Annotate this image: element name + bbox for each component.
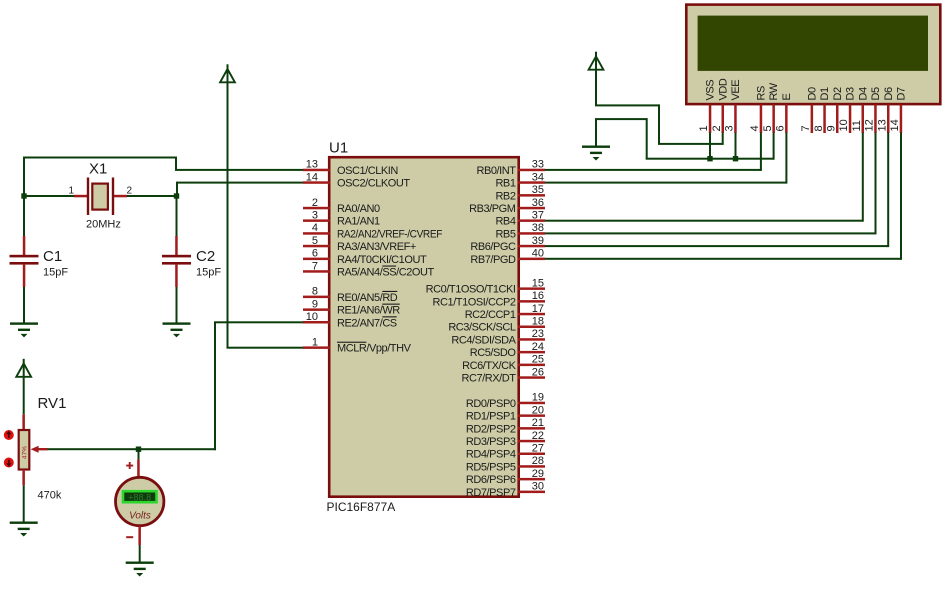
svg-text:13: 13 [876,119,888,131]
RV1 wiper arrow [38,448,48,450]
pin 29 stub (right) [518,478,546,481]
svg-text:14: 14 [889,119,901,131]
svg-text:RA1/AN1: RA1/AN1 [337,216,380,228]
svg-text:RD7/PSP7: RD7/PSP7 [466,487,516,499]
svg-text:RB1: RB1 [495,178,515,190]
svg-text:2: 2 [711,125,723,131]
svg-text:1: 1 [698,125,710,131]
svg-text:RB4: RB4 [495,216,515,228]
svg-text:6: 6 [312,248,318,260]
wire: MCLR pin1 horizontal [227,347,304,349]
svg-text:2: 2 [127,186,133,197]
pin 3 stub (left) [303,219,330,222]
svg-text:VEE: VEE [730,80,742,101]
svg-text:RE2/AN7/CS: RE2/AN7/CS [337,317,397,329]
svg-text:OSC2/CLKOUT: OSC2/CLKOUT [337,178,410,190]
pin 2 stub (left) [303,207,330,210]
svg-text:E: E [781,94,793,101]
LCD pin 5 stub [772,105,775,134]
svg-text:RS: RS [756,86,768,100]
pin 9 stub (left) [303,308,330,311]
svg-text:RE1/AN6/WR: RE1/AN6/WR [337,305,400,317]
svg-text:36: 36 [532,197,544,209]
wire: X1 left net top horizontal [23,157,177,159]
LCD pin 13 stub [887,105,890,134]
potentiometer RV1 [4,376,67,522]
pin 6 stub (left) [303,258,330,261]
IC U1 PIC16F877A body [327,140,519,515]
wire: RB5 to D5 [545,232,876,234]
pin 15 stub (right) [518,287,546,290]
crystal X1 [68,161,132,231]
pin 8 stub (left) [303,296,330,299]
pin 39 stub (right) [518,245,546,248]
svg-text:8: 8 [813,125,825,131]
LCD pin 10 stub [849,105,852,134]
LCD pin 6 stub [785,105,788,134]
svg-text:47%: 47% [22,446,29,459]
svg-text:Volts: Volts [129,511,151,522]
pin 23 stub (right) [518,338,546,341]
power +5V symbol to LCD VDD [589,52,604,70]
svg-text:RD3/PSP3: RD3/PSP3 [466,436,516,448]
svg-text:5: 5 [312,235,318,247]
pin 35 stub (right) [518,194,546,197]
svg-text:19: 19 [532,392,544,404]
svg-text:30: 30 [532,481,544,493]
wire: OSC2 pin14 net [177,182,303,184]
ground under C1 [10,322,38,337]
svg-text:RC3/SCK/SCL: RC3/SCK/SCL [448,322,516,334]
svg-text:RD4/PSP4: RD4/PSP4 [466,449,516,461]
svg-text:D7: D7 [896,87,908,100]
pin 19 stub (right) [518,402,546,405]
voltmeter [116,449,164,562]
pin 14 stub (left) [303,181,330,184]
wire: RB1 to E [545,182,786,184]
pin 40 stub (right) [518,258,546,261]
svg-text:RC4/SDI/SDA: RC4/SDI/SDA [451,334,516,346]
svg-text:D6: D6 [883,87,895,100]
pin 7 stub (left) [303,270,330,273]
svg-text:RB0/INT: RB0/INT [476,165,516,177]
node: wiper/voltmeter junction [136,447,141,452]
wire: VCC down 2 [658,104,660,143]
svg-text:2: 2 [312,197,318,209]
svg-text:20: 20 [532,404,544,416]
pin 38 stub (right) [518,232,546,235]
svg-text:15pF: 15pF [43,267,68,279]
pin 1 stub (left) [303,346,330,349]
LCD pin 14 stub [900,105,903,134]
pin 13 stub (left) [303,169,330,172]
svg-text:3: 3 [724,125,736,131]
node: VSS junction [707,156,712,161]
svg-text:RC0/T1OSO/T1CKI: RC0/T1OSO/T1CKI [426,284,516,296]
ground under voltmeter [126,562,154,577]
svg-text:RC7/RX/DT: RC7/RX/DT [461,373,516,385]
wire: X1 pin1 horizontal [23,195,74,197]
pin 17 stub (right) [518,313,546,316]
svg-text:D5: D5 [870,87,882,100]
svg-text:D0: D0 [806,87,818,100]
wire: riser to RE2/AN7 [214,322,216,450]
svg-text:RB3/PGM: RB3/PGM [469,203,516,215]
LCD pin 9 stub [836,105,839,134]
svg-text:RB6/PGC: RB6/PGC [470,241,516,253]
svg-text:26: 26 [532,366,544,378]
pin 20 stub (right) [518,414,546,417]
wire: junction to riser [139,448,217,450]
wire: VCC right [595,104,659,106]
svg-text:RD2/PSP2: RD2/PSP2 [466,423,516,435]
svg-text:27: 27 [532,443,544,455]
pin 33 stub (right) [518,169,546,172]
wire: X1 right to OSC2 vertical [176,182,178,196]
pin 30 stub (right) [518,491,546,494]
svg-text:15pF: 15pF [196,267,221,279]
pin 28 stub (right) [518,465,546,468]
svg-text:MCLR/Vpp/THV: MCLR/Vpp/THV [337,343,412,355]
svg-text:D2: D2 [832,87,844,100]
wire: ground stem up [595,119,597,145]
pin 24 stub (right) [518,351,546,354]
pin 25 stub (right) [518,364,546,367]
ground LCD ground [582,146,610,161]
wire: RW pin5 drop [773,133,775,160]
pin 36 stub (right) [518,207,546,210]
svg-text:16: 16 [532,290,544,302]
capacitor C2 [162,236,221,287]
svg-text:9: 9 [826,125,838,131]
wire: RB0 to RS [545,169,761,171]
LCD pin 11 stub [862,105,865,134]
wire: VCC down [595,69,597,105]
svg-text:35: 35 [532,184,544,196]
svg-text:23: 23 [532,328,544,340]
ground under RV1 [10,522,38,537]
pin 21 stub (right) [518,427,546,430]
wire: C2 top lead [176,196,178,236]
RV1 adjust buttons [4,430,14,440]
wire: gnd right [595,118,647,120]
LCD pin 7 stub [811,105,814,134]
svg-text:38: 38 [532,222,544,234]
wire: X1 pin2 horizontal [127,195,178,197]
wire: X1 left net vertical [23,157,25,197]
svg-text:C1: C1 [43,248,62,265]
svg-text:10: 10 [306,311,318,323]
svg-text:RB5: RB5 [495,228,515,240]
svg-text:VDD: VDD [717,78,729,100]
svg-text:RD1/PSP1: RD1/PSP1 [466,411,516,423]
wire: VCC to MCLR vertical [227,82,229,348]
svg-text:1: 1 [312,337,318,349]
svg-text:21: 21 [532,417,544,429]
svg-text:RC1/T1OSI/CCP2: RC1/T1OSI/CCP2 [433,296,516,308]
svg-text:17: 17 [532,303,544,315]
LCD pin 4 stub [760,105,763,134]
svg-text:5: 5 [762,125,774,131]
wire: gnd bus to RW [646,158,774,160]
LCD module LM016L body [686,5,940,105]
wire: OSC1 pin13 net [175,169,303,171]
wire: RE2/AN7 pin10 horizontal [214,321,303,323]
pin 16 stub (right) [518,300,546,303]
svg-text:22: 22 [532,430,544,442]
svg-text:RA2/AN2/VREF-/CVREF: RA2/AN2/VREF-/CVREF [337,228,443,240]
svg-text:15: 15 [532,277,544,289]
svg-text:RD6/PSP6: RD6/PSP6 [466,474,516,486]
svg-text:RA4/T0CKI/C1OUT: RA4/T0CKI/C1OUT [337,254,427,266]
LCD pin 1 stub [709,105,712,134]
svg-text:X1: X1 [89,161,107,178]
pin 5 stub (left) [303,245,330,248]
svg-text:33: 33 [532,159,544,171]
svg-text:18: 18 [532,316,544,328]
svg-text:OSC1/CLKIN: OSC1/CLKIN [337,165,398,177]
power +5V symbol to MCLR [220,64,235,82]
svg-text:RB7/PGD: RB7/PGD [470,254,516,266]
node: X1/C1/OSC1 junction [21,193,26,198]
svg-text:37: 37 [532,210,544,222]
svg-text:8: 8 [312,286,318,298]
svg-text:1: 1 [68,186,74,197]
pin 18 stub (right) [518,326,546,329]
pin 4 stub (left) [303,232,330,235]
wire: VCC to VDD [658,143,723,145]
pin 26 stub (right) [518,376,546,379]
svg-text:28: 28 [532,455,544,467]
wire: C1 top lead [23,196,25,236]
svg-text:PIC16F877A: PIC16F877A [327,500,396,514]
svg-text:RA3/AN3/VREF+: RA3/AN3/VREF+ [337,241,416,253]
svg-text:RC5/SDO: RC5/SDO [470,347,517,359]
node: X1/C2/OSC2 junction [174,193,179,198]
svg-text:D3: D3 [845,87,857,100]
capacitor C1 [10,236,69,287]
wire: gnd down [646,118,648,159]
svg-text:VSS: VSS [705,80,717,101]
svg-text:3: 3 [312,210,318,222]
wire: RV1 wiper to junction [47,448,139,450]
svg-text:RE0/AN5/RD: RE0/AN5/RD [337,292,398,304]
svg-text:D4: D4 [857,87,869,100]
pin 22 stub (right) [518,440,546,443]
wire: VEE pin3 drop [735,133,737,159]
wire: VDD pin2 drop [722,133,724,145]
svg-text:RC6/TX/CK: RC6/TX/CK [462,360,517,372]
svg-text:RA0/AN0: RA0/AN0 [337,203,380,215]
pin 10 stub (left) [303,321,330,324]
wire: VSS pin1 drop [709,133,711,159]
svg-text:+88.8: +88.8 [128,493,151,503]
svg-text:40: 40 [532,248,544,260]
LCD pin 2 stub [722,105,725,134]
svg-text:29: 29 [532,468,544,480]
svg-text:RB2: RB2 [495,190,515,202]
svg-text:12: 12 [864,119,876,131]
node: VEE junction [733,156,738,161]
svg-text:4: 4 [749,125,761,131]
svg-text:20MHz: 20MHz [86,219,121,231]
svg-text:RD5/PSP5: RD5/PSP5 [466,461,516,473]
ground under C2 [163,322,191,337]
svg-text:D1: D1 [819,87,831,100]
LCD pin 12 stub [874,105,877,134]
svg-text:34: 34 [532,171,544,183]
wire: RB6 to D6 [545,245,888,247]
pin 37 stub (right) [518,219,546,222]
svg-text:10: 10 [838,119,850,131]
svg-text:7: 7 [800,125,812,131]
svg-text:4: 4 [312,222,318,234]
svg-text:7: 7 [312,260,318,272]
svg-text:13: 13 [306,159,318,171]
svg-text:RD0/PSP0: RD0/PSP0 [466,398,516,410]
svg-text:U1: U1 [329,140,348,157]
wire: jog down to OSC1 row [175,157,177,170]
wire: RB7 to D7 [545,258,901,260]
wire: RB4 to D4 [545,220,863,222]
svg-text:14: 14 [306,171,318,183]
svg-text:RA5/AN4/SS/C2OUT: RA5/AN4/SS/C2OUT [337,267,434,279]
wire: C2 bottom lead to ground [176,287,178,323]
svg-text:11: 11 [851,120,863,131]
wire: C1 bottom lead to ground [23,287,25,323]
svg-text:RW: RW [768,82,780,100]
svg-text:24: 24 [532,341,544,353]
pin 27 stub (right) [518,453,546,456]
pin 34 stub (right) [518,181,546,184]
svg-text:25: 25 [532,354,544,366]
svg-text:6: 6 [775,125,787,131]
svg-text:RV1: RV1 [38,395,67,412]
LCD pin 3 stub [734,105,737,134]
LCD pin 8 stub [823,105,826,134]
svg-text:470k: 470k [38,490,62,502]
power +5V symbol to RV1 [16,359,31,377]
svg-text:39: 39 [532,235,544,247]
svg-text:C2: C2 [196,248,215,265]
svg-text:9: 9 [312,298,318,310]
svg-text:RC2/CCP1: RC2/CCP1 [465,309,516,321]
